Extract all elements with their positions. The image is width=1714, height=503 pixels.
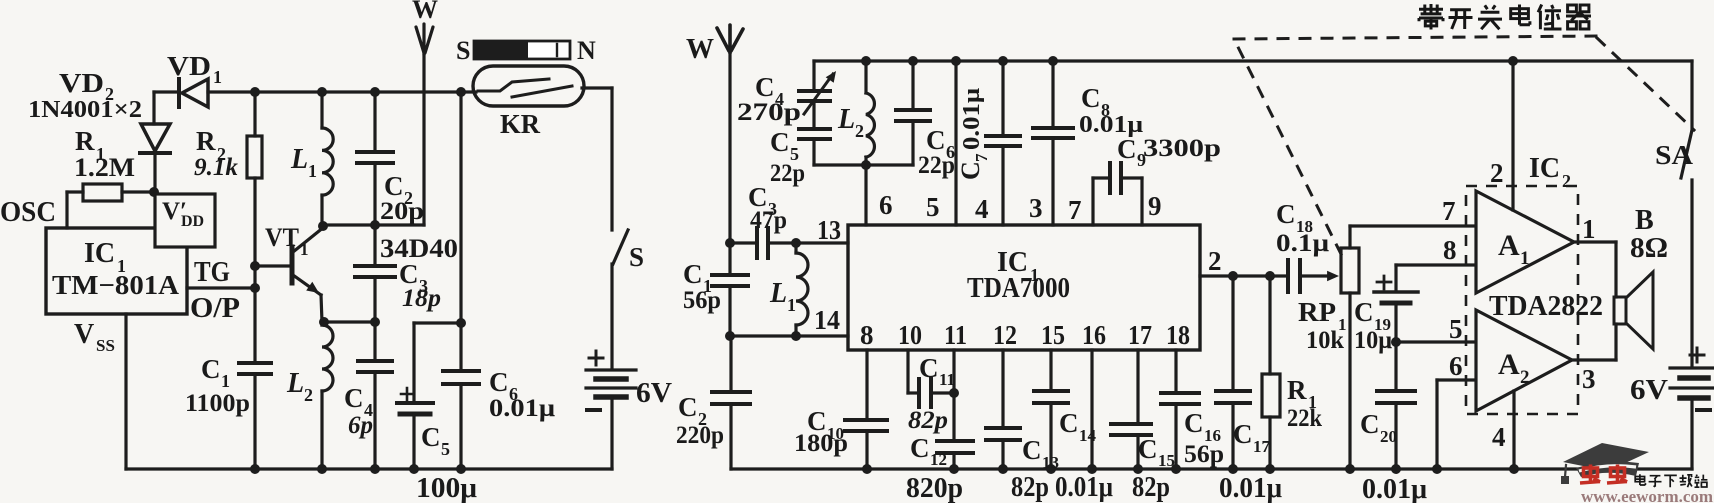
svg-text:C: C	[1022, 435, 1042, 465]
svg-text:TG: TG	[194, 257, 230, 288]
svg-text:8: 8	[1443, 235, 1457, 265]
svg-text:W: W	[686, 34, 714, 65]
svg-text:C: C	[1184, 408, 1204, 438]
svg-text:4: 4	[975, 194, 989, 224]
svg-text:R: R	[75, 126, 95, 156]
svg-text:C: C	[1354, 297, 1374, 327]
svg-text:L: L	[290, 144, 308, 175]
svg-text:11: 11	[944, 320, 967, 350]
svg-text:8: 8	[860, 320, 874, 350]
svg-text:C: C	[678, 392, 698, 422]
svg-text:82p: 82p	[1132, 472, 1170, 503]
svg-text:16: 16	[1082, 320, 1106, 350]
svg-text:W: W	[412, 0, 438, 24]
svg-text:1100p: 1100p	[185, 390, 250, 417]
svg-text:18p: 18p	[402, 285, 441, 312]
svg-text:1: 1	[1520, 248, 1530, 269]
svg-text:1: 1	[221, 371, 230, 391]
svg-text:VD: VD	[167, 51, 211, 81]
svg-text:C: C	[1360, 409, 1380, 439]
svg-text:C: C	[910, 433, 930, 463]
svg-text:15: 15	[1158, 451, 1175, 470]
svg-text:22p: 22p	[918, 152, 955, 179]
svg-text:13: 13	[1042, 453, 1059, 472]
svg-text:L: L	[286, 368, 304, 399]
svg-text:9: 9	[1148, 191, 1162, 221]
svg-text:3: 3	[1582, 364, 1596, 394]
svg-text:82p: 82p	[1011, 472, 1049, 503]
svg-text:B: B	[1635, 205, 1654, 236]
svg-text:TDA2822: TDA2822	[1489, 290, 1603, 322]
svg-text:220p: 220p	[676, 422, 724, 449]
svg-text:9.1k: 9.1k	[194, 154, 239, 181]
svg-text:C: C	[770, 127, 790, 157]
svg-text:C: C	[1276, 199, 1296, 229]
svg-text:2: 2	[1208, 246, 1222, 276]
svg-text:C: C	[384, 171, 404, 201]
svg-text:56p: 56p	[1184, 441, 1224, 468]
svg-text:100μ: 100μ	[416, 473, 477, 503]
svg-text:IC: IC	[1529, 153, 1560, 184]
svg-text:0.01μ: 0.01μ	[489, 395, 555, 422]
svg-text:0.01μ: 0.01μ	[1055, 472, 1113, 503]
svg-text:22k: 22k	[1287, 405, 1322, 432]
svg-text:34D40: 34D40	[380, 234, 458, 263]
svg-text:47p: 47p	[750, 207, 787, 234]
svg-text:R: R	[1287, 375, 1307, 405]
svg-text:OSC: OSC	[0, 196, 56, 228]
svg-text:8Ω: 8Ω	[1630, 233, 1668, 264]
svg-text:A: A	[1498, 229, 1520, 262]
svg-text:TDA7000: TDA7000	[967, 273, 1070, 304]
svg-text:10k: 10k	[1306, 327, 1344, 354]
svg-text:0.01μ: 0.01μ	[1362, 474, 1427, 503]
svg-text:SA: SA	[1655, 140, 1694, 170]
svg-text:2: 2	[1562, 171, 1571, 191]
svg-text:3300p: 3300p	[1143, 135, 1221, 162]
svg-text:L: L	[837, 104, 855, 135]
svg-text:10μ: 10μ	[1354, 327, 1392, 354]
svg-text:2: 2	[1520, 367, 1530, 388]
svg-text:12: 12	[930, 450, 947, 469]
svg-text:C: C	[1081, 83, 1101, 113]
svg-text:S: S	[629, 242, 644, 272]
svg-text:2: 2	[855, 121, 864, 141]
svg-text:13: 13	[817, 215, 841, 245]
svg-text:RP: RP	[1298, 297, 1336, 327]
svg-text:12: 12	[993, 320, 1017, 350]
svg-text:3: 3	[1029, 193, 1043, 223]
svg-text:5: 5	[441, 439, 450, 459]
svg-text:C: C	[421, 422, 441, 452]
svg-text:6V: 6V	[636, 378, 672, 409]
svg-text:15: 15	[1041, 320, 1065, 350]
svg-text:1: 1	[787, 295, 796, 315]
svg-text:2: 2	[1490, 158, 1504, 188]
svg-text:VT: VT	[265, 223, 299, 252]
svg-text:C: C	[755, 72, 775, 102]
svg-text:O/P: O/P	[190, 293, 240, 324]
svg-text:TM−801A: TM−801A	[52, 270, 180, 300]
svg-text:www.eeworm.com: www.eeworm.com	[1581, 487, 1713, 503]
svg-text:6p: 6p	[348, 412, 373, 439]
svg-text:18: 18	[1166, 320, 1190, 350]
svg-text:10: 10	[898, 320, 922, 350]
svg-text:C: C	[926, 125, 946, 155]
svg-text:R: R	[196, 126, 216, 156]
svg-text:2: 2	[304, 385, 313, 405]
svg-text:6: 6	[1449, 351, 1463, 381]
svg-text:5: 5	[1449, 314, 1463, 344]
svg-text:17: 17	[1128, 320, 1152, 350]
svg-text:L: L	[769, 278, 787, 309]
svg-text:0.1μ: 0.1μ	[1276, 230, 1329, 257]
svg-text:N: N	[577, 36, 596, 65]
svg-text:A: A	[1498, 348, 1520, 381]
svg-text:1: 1	[213, 67, 222, 87]
svg-text:7: 7	[1442, 196, 1456, 226]
svg-text:6V: 6V	[1630, 375, 1668, 406]
svg-text:C: C	[683, 259, 703, 289]
svg-text:82p: 82p	[908, 407, 948, 434]
svg-text:17: 17	[1253, 437, 1271, 456]
svg-text:4: 4	[1492, 422, 1506, 452]
svg-text:7: 7	[1068, 195, 1082, 225]
svg-text:20: 20	[1380, 427, 1397, 446]
svg-text:C: C	[956, 161, 985, 180]
svg-text:C: C	[1138, 434, 1158, 464]
svg-text:5: 5	[926, 192, 940, 222]
svg-text:C: C	[344, 383, 364, 413]
svg-text:0.01μ: 0.01μ	[959, 88, 985, 150]
svg-text:270p: 270p	[737, 99, 801, 126]
svg-text:IC: IC	[84, 238, 115, 269]
svg-text:14: 14	[814, 305, 840, 335]
svg-text:0.01μ: 0.01μ	[1219, 473, 1282, 503]
svg-text:C: C	[201, 354, 221, 384]
svg-text:SS: SS	[96, 336, 115, 355]
svg-text:820p: 820p	[906, 473, 963, 503]
svg-text:11: 11	[939, 370, 955, 389]
svg-text:6: 6	[879, 190, 893, 220]
svg-text:1: 1	[300, 240, 309, 259]
svg-text:C: C	[1233, 419, 1253, 449]
svg-text:7: 7	[972, 153, 991, 162]
svg-text:1.2M: 1.2M	[74, 153, 135, 182]
svg-text:KR: KR	[500, 109, 540, 139]
svg-text:1N4001×2: 1N4001×2	[28, 97, 142, 123]
svg-text:180p: 180p	[794, 430, 848, 457]
svg-text:C: C	[489, 367, 509, 397]
svg-text:56p: 56p	[683, 287, 721, 314]
svg-text:DD: DD	[181, 213, 204, 230]
svg-text:1: 1	[1582, 214, 1596, 244]
svg-text:20p: 20p	[380, 198, 424, 225]
svg-text:V: V	[74, 319, 94, 350]
svg-text:VD: VD	[59, 68, 104, 98]
svg-text:S: S	[456, 36, 470, 65]
svg-text:22p: 22p	[770, 160, 805, 187]
svg-text:C: C	[1059, 408, 1079, 438]
svg-text:14: 14	[1079, 426, 1097, 445]
svg-text:C: C	[919, 353, 939, 383]
svg-text:1: 1	[308, 161, 317, 181]
svg-text:C: C	[1117, 134, 1137, 164]
